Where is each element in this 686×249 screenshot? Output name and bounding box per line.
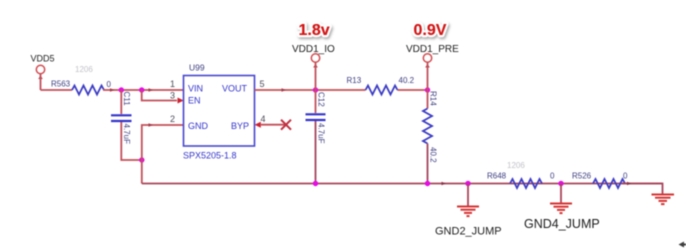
svg-text:VDD5: VDD5 <box>31 54 55 64</box>
callout 0.9V <box>414 22 447 39</box>
wire VDD5 vertical drop <box>40 74 42 91</box>
svg-text:VDD1_IO: VDD1_IO <box>292 44 335 55</box>
wire R563 to VIN pin <box>103 89 183 91</box>
svg-text:4.7uF: 4.7uF <box>122 124 131 145</box>
wire VDD1_PRE drop <box>427 62 429 90</box>
resistor R13 <box>366 86 398 95</box>
svg-text:1206: 1206 <box>507 161 525 170</box>
wire VOUT to R13 <box>255 89 366 91</box>
svg-text:GND2_JUMP: GND2_JUMP <box>435 226 502 238</box>
power symbol VDD1_IO <box>292 44 335 68</box>
capacitor C11 <box>111 115 132 121</box>
wire EN branch <box>142 90 177 101</box>
node junction rail GND4 <box>558 181 563 186</box>
wire GND4 drop <box>560 184 562 204</box>
wire arrow VOUT <box>282 88 287 92</box>
callout 1.8v <box>299 22 330 39</box>
svg-text:GND: GND <box>188 121 209 131</box>
pin arrow EN <box>178 98 184 104</box>
svg-text:GND4_JUMP: GND4_JUMP <box>524 217 600 231</box>
svg-text:3: 3 <box>170 91 175 101</box>
svg-text:1206: 1206 <box>75 65 93 74</box>
wire arrow VIN <box>149 88 154 92</box>
cursor arrow mark <box>679 242 686 248</box>
wire GND2 drop <box>467 184 469 207</box>
node junction rail C12 <box>313 181 318 186</box>
wire C12 bottom <box>315 121 317 184</box>
resistor R14 <box>423 109 432 144</box>
resistor R526 <box>593 179 625 188</box>
wire VDD5 to R563 <box>41 89 73 91</box>
op-amp U99 body <box>184 76 255 147</box>
wire arrow GND pin <box>149 123 154 127</box>
pin arrow BYP <box>255 122 261 128</box>
svg-text:40.2: 40.2 <box>429 147 438 163</box>
ground right <box>652 195 675 205</box>
svg-text:5: 5 <box>260 79 265 89</box>
wire GND pin to rail <box>142 125 183 184</box>
capacitor C12 <box>306 114 326 120</box>
svg-text:VIN: VIN <box>188 84 203 94</box>
resistor R648 <box>510 179 542 188</box>
power symbol VDD1_PRE <box>406 44 459 68</box>
ground GND2_JUMP <box>457 207 479 217</box>
svg-text:C11: C11 <box>122 92 131 107</box>
wire arrow after R563 <box>110 88 115 92</box>
wire R14 top lead <box>427 90 429 109</box>
svg-text:0.9V: 0.9V <box>414 22 447 39</box>
svg-text:R14: R14 <box>429 91 438 106</box>
node junction C12/VDD1_IO <box>313 87 318 92</box>
wire arrow rail left of R648 <box>442 182 447 186</box>
wire C11 top <box>120 90 122 114</box>
wire R526 to right ground <box>622 184 663 195</box>
wire R13 to R14 <box>398 89 428 91</box>
no-connect X on BYP <box>281 120 291 130</box>
svg-text:0: 0 <box>550 172 555 181</box>
ground GND4_JUMP <box>550 204 572 214</box>
svg-text:0: 0 <box>623 172 628 181</box>
svg-text:0: 0 <box>107 80 112 89</box>
node junction R14 top <box>425 87 430 92</box>
wire BYP stub <box>261 124 286 126</box>
svg-text:SPX5205-1.8: SPX5205-1.8 <box>183 151 237 161</box>
svg-text:2: 2 <box>170 114 175 124</box>
svg-text:1.8v: 1.8v <box>299 22 330 39</box>
svg-text:R526: R526 <box>572 172 592 181</box>
svg-text:U99: U99 <box>189 63 205 73</box>
power symbol VDD5 <box>31 54 55 80</box>
svg-text:1: 1 <box>170 79 175 89</box>
svg-text:VDD1_PRE: VDD1_PRE <box>406 44 459 55</box>
wire C12 top <box>315 90 317 113</box>
node junction C11 top <box>119 87 124 92</box>
node junction rail GND2 <box>465 181 470 186</box>
svg-text:C12: C12 <box>317 92 326 107</box>
svg-text:R13: R13 <box>347 76 362 85</box>
resistor R563 <box>72 86 104 95</box>
node junction rail R14 <box>425 181 430 186</box>
wire C11 bottom <box>121 122 142 160</box>
svg-text:R563: R563 <box>51 80 71 89</box>
node junction EN branch <box>139 87 144 92</box>
wire arrow right of R526 <box>627 182 632 186</box>
svg-text:4: 4 <box>261 114 266 124</box>
svg-text:R648: R648 <box>487 172 507 181</box>
svg-text:BYP: BYP <box>231 121 249 131</box>
wire ground rail <box>142 183 663 185</box>
wire VDD1_IO drop <box>315 62 317 90</box>
wire R14 bottom lead <box>427 144 429 184</box>
node junction C11/GND <box>139 157 144 162</box>
svg-text:40.2: 40.2 <box>399 76 415 85</box>
svg-text:4.7uF: 4.7uF <box>317 123 326 144</box>
svg-text:VOUT: VOUT <box>222 84 248 94</box>
svg-text:EN: EN <box>188 96 201 106</box>
